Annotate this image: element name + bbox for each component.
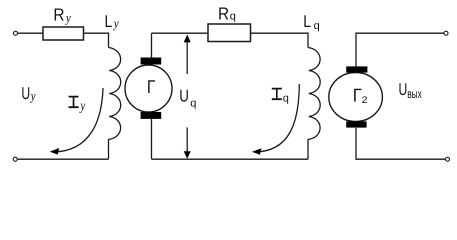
- inductor Lq: [308, 48, 320, 160]
- wire terminal to Ry: [18, 32, 43, 34]
- label Lq: [303, 12, 319, 32]
- svg-text:U: U: [21, 84, 30, 103]
- label Rq: [218, 4, 236, 24]
- label Iq (serif I drawn as path): [272, 88, 282, 100]
- brush G2 top: [346, 66, 367, 72]
- label Ly: [105, 12, 119, 31]
- resistor Ry: [43, 27, 84, 40]
- brush G2 bottom: [346, 121, 366, 127]
- arrow Iq (current direction): [254, 84, 299, 152]
- svg-text:q: q: [190, 97, 196, 109]
- svg-text:Г: Г: [147, 76, 155, 97]
- wire q-loop bottom: [152, 158, 309, 160]
- brush G top: [141, 58, 162, 65]
- arrow Iy (current direction): [52, 88, 103, 152]
- arrow Uq down: [186, 127, 188, 152]
- wire bottom-left: [18, 158, 109, 160]
- terminal top-right: [444, 31, 448, 35]
- label Uvyh: [399, 80, 423, 101]
- terminal bottom-left: [13, 157, 17, 161]
- wire G bottom brush down: [151, 119, 153, 159]
- machine G2 circle: [329, 73, 383, 122]
- wire G2 top: [356, 33, 444, 66]
- svg-text:q: q: [283, 93, 289, 105]
- label Uq: [179, 87, 196, 110]
- resistor Rq: [208, 24, 251, 42]
- wire Ry to Ly corner: [84, 33, 109, 47]
- svg-text:U: U: [179, 87, 189, 106]
- wire Rq to Lq corner: [251, 33, 309, 47]
- inductor Ly: [109, 48, 121, 160]
- svg-text:q: q: [314, 20, 320, 32]
- svg-text:y: y: [112, 16, 119, 31]
- svg-text:R: R: [53, 4, 64, 24]
- label Uy: [21, 84, 35, 103]
- brush G bottom: [141, 112, 162, 119]
- svg-text:y: y: [64, 10, 71, 25]
- label Iy (serif I drawn as path): [69, 96, 79, 108]
- label Ry: [53, 4, 71, 25]
- svg-text:2: 2: [362, 95, 368, 106]
- arrow Uq up: [186, 42, 188, 74]
- wire q-loop top left: [152, 32, 209, 34]
- terminal top-left: [14, 31, 18, 35]
- wire G2 bottom: [356, 128, 445, 160]
- svg-text:R: R: [218, 4, 229, 24]
- svg-text:U: U: [399, 80, 408, 99]
- svg-text:L: L: [105, 12, 113, 31]
- svg-text:вых: вых: [407, 87, 422, 101]
- terminal bottom-right: [446, 157, 450, 161]
- svg-text:Г: Г: [353, 85, 362, 106]
- svg-text:y: y: [79, 99, 86, 114]
- svg-text:y: y: [29, 88, 36, 103]
- label G2 rotor: [353, 85, 368, 106]
- wire G top brush to q-loop top: [151, 33, 153, 57]
- machine G (amplidyne) circle: [125, 65, 172, 112]
- svg-text:L: L: [303, 12, 311, 31]
- svg-text:q: q: [230, 10, 236, 22]
